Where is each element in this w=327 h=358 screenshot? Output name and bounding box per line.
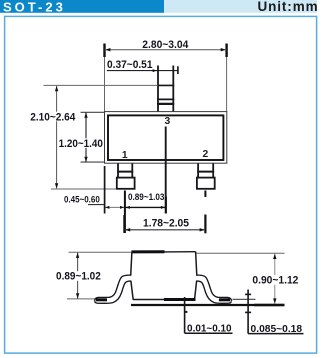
package body inner outline (top view) — [108, 115, 223, 160]
pin 1 lead bend line — [117, 171, 133, 173]
dimension 0.89~1.03 arrow left — [126, 206, 130, 209]
dimension 0.45~0.60 end bar left (body edge extension) — [104, 166, 106, 214]
pin 1 lead right edge — [131, 164, 133, 178]
dimension 0.89~1.03 end bar right — [165, 197, 167, 214]
pin 1 centerline extension bar — [124, 191, 126, 234]
pin 2 lead right edge — [212, 164, 214, 178]
dimension 0.45~0.60 leader line — [88, 204, 104, 206]
pin 2 lead left edge — [197, 164, 199, 178]
dimension 2.80~3.04 end bar right — [225, 44, 227, 58]
dimension 0.90~1.12 arrow bottom — [273, 298, 276, 303]
package body outer outline (top view) — [105, 112, 227, 164]
right lead bottom surface — [196, 281, 231, 303]
dimension 2.80~3.04 end bar left — [103, 44, 105, 58]
dimension 2.80~3.04 line — [105, 49, 227, 51]
standoff tick nub — [185, 311, 188, 313]
pin 3 lead foot top edge — [157, 84, 174, 86]
dimension 0.37~0.51 leader line — [107, 70, 178, 72]
svg-text:SOT-23: SOT-23 — [3, 0, 66, 14]
svg-text:2: 2 — [203, 149, 209, 160]
dimension 1.78~2.05 line — [124, 229, 205, 231]
body outline (side view) top edge — [132, 251, 196, 254]
dimension text 1.20~1.40 — [58, 138, 106, 148]
svg-text:2.10~2.64: 2.10~2.64 — [30, 112, 76, 124]
lead thickness outside arrow top — [245, 293, 251, 295]
dimension 2.80~3.04 arrow right — [221, 48, 226, 51]
pin 3 lead lower bend line — [157, 103, 174, 105]
standoff tick line (0.01~0.10) — [184, 297, 186, 333]
pin 3 lead bend line — [157, 98, 174, 100]
svg-text:0.90~1.12: 0.90~1.12 — [252, 274, 298, 286]
svg-text:0.01~0.10: 0.01~0.10 — [187, 324, 232, 335]
dimension 1.20~1.40 line — [85, 112, 87, 162]
dimension 1.78~2.05 end bar left — [123, 215, 125, 233]
lead thickness tick line (0.085~0.18) — [247, 290, 249, 334]
dimension 0.90~1.12 top extension line — [197, 252, 285, 254]
dimension 2.10~2.64 arrow bottom — [55, 183, 58, 188]
svg-text:Unit:mm: Unit:mm — [257, 0, 318, 14]
body top edge thick segment — [131, 250, 164, 253]
left lead bottom surface — [95, 281, 132, 303]
dimension 0.90~1.12 arrow top — [273, 254, 276, 259]
header dark blue title bar — [0, 0, 164, 13]
svg-text:0.89~1.02: 0.89~1.02 — [56, 271, 101, 283]
pin 2 lead bend line — [197, 171, 214, 173]
dimension 0.45~0.60 line — [104, 206, 125, 208]
dimension 1.78~2.05 arrow right — [200, 228, 205, 231]
body outline left edge lower segment — [131, 281, 133, 300]
pin 2 foot outline — [197, 178, 215, 189]
left lead (gull wing) top surface — [94, 275, 131, 301]
dimension 0.89~1.03 line — [125, 206, 166, 208]
dimension 0.37~0.51 arrow — [153, 69, 157, 72]
svg-text:0.45~0.60: 0.45~0.60 — [64, 194, 100, 205]
package centerline — [165, 127, 167, 214]
dimension 0.89~1.02 top extension line — [69, 251, 132, 253]
dimension 2.10~2.64 arrow top — [55, 86, 58, 91]
dimension 0.45~0.60 arrow right — [120, 206, 124, 209]
dimension 0.89~1.02 line — [77, 253, 79, 299]
dimension 2.10~2.64 bottom extension line — [51, 188, 117, 190]
body outline bottom edge — [133, 299, 195, 301]
svg-text:1.78~2.05: 1.78~2.05 — [143, 218, 189, 230]
svg-text:3: 3 — [165, 116, 171, 127]
dimension 0.89~1.03 arrow right — [161, 206, 165, 209]
svg-text:1: 1 — [122, 150, 128, 161]
dimension 0.89~1.02 bottom extension line — [67, 298, 95, 300]
dimension 1.20~1.40 bottom extension tick — [81, 161, 105, 163]
dimension 0.085~0.18 underline — [248, 333, 303, 335]
dimension 2.80~3.04 extension line left — [104, 44, 106, 112]
dimension 0.37~0.51 right tick — [177, 66, 179, 74]
right lead (gull wing) top surface — [196, 275, 232, 301]
pin 2 centerline stub — [204, 191, 206, 198]
dimension 1.20~1.40 arrow bottom — [84, 157, 87, 162]
lead thickness outside arrow bottom — [245, 311, 251, 313]
dimension 0.90~1.12 line — [274, 254, 276, 304]
pin 3 lead (top tab) left edge — [157, 66, 159, 113]
lead thickness extension line (foot top) — [233, 298, 256, 300]
dimension 1.20~1.40 top extension tick — [81, 111, 105, 113]
body bottom edge thick segment — [164, 298, 196, 301]
body outline right edge lower segment — [195, 281, 197, 300]
pin 3 lead right edge — [172, 66, 174, 113]
dimension 2.10~2.64 top extension line — [44, 84, 159, 86]
right lead foot pad (thick) — [219, 298, 230, 301]
dimension 0.89~1.02 arrow top — [76, 253, 79, 258]
left lead foot pad (thick) — [96, 298, 107, 301]
pin 1 lead left edge — [117, 164, 119, 178]
dimension 0.45~0.60 arrow left — [105, 206, 109, 209]
dimension 2.80~3.04 arrow left — [105, 48, 110, 51]
dimension 0.90~1.12 bottom extension (thick) — [254, 304, 285, 306]
svg-text:0.085~0.18: 0.085~0.18 — [251, 324, 303, 335]
dimension text 0.90~1.12 — [252, 275, 299, 285]
svg-text:0.89~1.03: 0.89~1.03 — [128, 192, 164, 203]
dimension text 2.10~2.64 — [30, 112, 78, 122]
dimension 2.10~2.64 line — [56, 86, 58, 189]
seating plane line — [131, 304, 284, 306]
dimension 0.89~1.02 arrow bottom — [76, 293, 79, 298]
svg-text:2.80~3.04: 2.80~3.04 — [142, 39, 189, 51]
dimension 1.78~2.05 end bar right — [204, 215, 206, 234]
dimension 1.78~2.05 arrow left — [125, 228, 130, 231]
body outline left edge upper segment — [131, 252, 132, 275]
dimension 2.80~3.04 extension line right — [226, 44, 228, 112]
dimension 0.01~0.10 underline — [185, 332, 233, 334]
dimension 1.20~1.40 arrow top — [84, 113, 87, 118]
dimension text 0.89~1.02 — [55, 271, 102, 281]
pin 1 foot outline — [117, 178, 135, 189]
svg-text:0.37~0.51: 0.37~0.51 — [107, 59, 153, 71]
header light blue unit bar — [164, 0, 317, 13]
svg-text:1.20~1.40: 1.20~1.40 — [59, 138, 103, 150]
body outline right edge upper segment — [196, 252, 197, 276]
